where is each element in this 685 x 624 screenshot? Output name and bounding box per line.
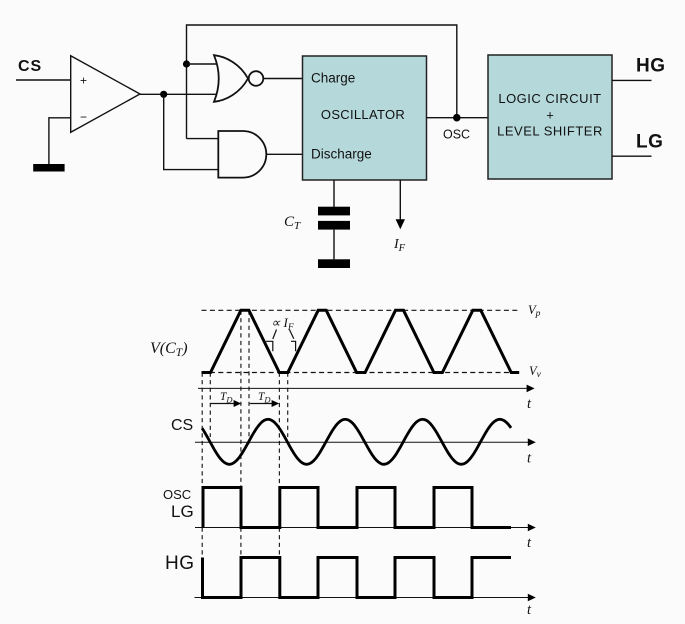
AND gate U3 xyxy=(218,131,266,178)
axis row3 xyxy=(195,524,536,551)
svg-text:LOGIC CIRCUIT: LOGIC CIRCUIT xyxy=(498,91,601,106)
TD arrow 2 xyxy=(250,391,279,407)
NOR gate U2 xyxy=(214,55,263,102)
dashed vertical 3 xyxy=(240,311,242,558)
current arrow IF xyxy=(396,180,405,229)
svg-text:LG: LG xyxy=(171,502,194,521)
dashed vertical 1 xyxy=(202,311,288,558)
dashed level Vp xyxy=(202,309,521,311)
wire comparator output xyxy=(140,93,220,95)
wire feedback branch to AND xyxy=(164,94,219,169)
svg-text:OSC: OSC xyxy=(163,487,191,502)
wire CS input xyxy=(16,79,71,81)
HG square wave xyxy=(203,558,512,598)
axis row2 xyxy=(195,438,536,466)
wire OSC output xyxy=(427,117,489,119)
svg-text:HG: HG xyxy=(636,56,666,77)
svg-text:Charge: Charge xyxy=(311,71,355,86)
triangle wave V(CT) xyxy=(202,310,520,372)
svg-text:CS: CS xyxy=(171,417,193,434)
wire AND top input xyxy=(187,138,219,140)
TD arrow 1 xyxy=(210,391,241,407)
dashed level Vv xyxy=(202,372,521,374)
svg-text:Discharge: Discharge xyxy=(311,147,372,162)
wire feedback top xyxy=(187,25,457,139)
leader line 2 xyxy=(290,330,294,339)
svg-text:HG: HG xyxy=(165,553,195,574)
svg-text:−: − xyxy=(80,110,87,124)
OSC LG square wave xyxy=(203,488,511,528)
oscillator block xyxy=(303,56,427,180)
ground xyxy=(33,164,64,172)
svg-text:+: + xyxy=(80,74,87,88)
wire AND output to Discharge xyxy=(266,153,302,155)
axis row1 xyxy=(198,385,535,412)
CS sine wave xyxy=(202,419,511,464)
dashed vertical 6 xyxy=(287,373,289,438)
dashed vertical 4 xyxy=(248,311,250,448)
dashed vertical 2 xyxy=(209,373,211,438)
wire HG output xyxy=(612,79,652,81)
logic block xyxy=(488,55,612,179)
op-amp U1 xyxy=(71,56,140,133)
svg-text:+: + xyxy=(546,108,554,123)
node A xyxy=(160,91,167,98)
svg-text:OSC: OSC xyxy=(443,128,470,142)
capacitor CT xyxy=(318,207,350,230)
svg-text:LEVEL SHIFTER: LEVEL SHIFTER xyxy=(497,124,603,139)
wire CT to ground xyxy=(333,230,335,260)
wire inverting input xyxy=(49,118,71,165)
svg-text:CS: CS xyxy=(18,58,42,75)
dashed vertical 5 xyxy=(278,373,280,558)
leader line 1 xyxy=(273,330,277,340)
wire NOR output to Charge xyxy=(263,78,302,80)
wire oscillator to CT xyxy=(333,180,335,207)
slope mark 2 xyxy=(291,341,296,351)
axis row4 xyxy=(195,594,536,618)
node B xyxy=(183,60,190,67)
svg-text:OSCILLATOR: OSCILLATOR xyxy=(321,107,405,122)
slope mark 1 xyxy=(266,341,273,351)
node OSC xyxy=(453,114,461,122)
svg-text:LG: LG xyxy=(636,132,663,153)
ground below CT xyxy=(318,259,350,268)
wire LG output xyxy=(612,155,652,157)
svg-text:V(CT): V(CT) xyxy=(150,340,188,359)
wire NOR top input xyxy=(187,63,220,65)
